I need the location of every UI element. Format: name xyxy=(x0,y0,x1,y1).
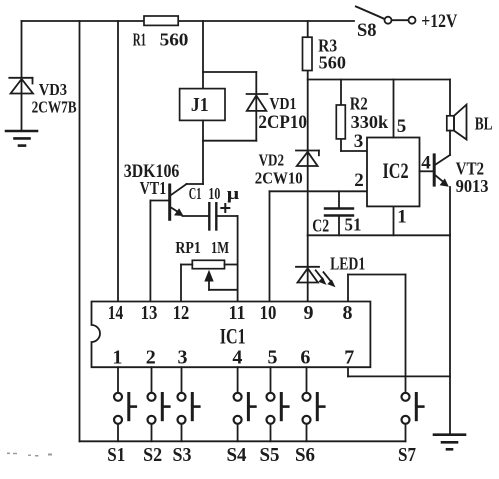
svg-text:IC2: IC2 xyxy=(383,158,409,183)
potentiometer RP1 xyxy=(192,260,224,268)
wire pin10/pin2 horizontal xyxy=(270,190,368,192)
svg-text:IC1: IC1 xyxy=(220,324,246,349)
svg-text:560: 560 xyxy=(319,53,346,73)
svg-text:5: 5 xyxy=(268,347,278,369)
wire RP1 left lead xyxy=(181,264,192,266)
pushbutton S3 xyxy=(178,393,200,442)
svg-text:S7: S7 xyxy=(398,444,416,466)
svg-text:51: 51 xyxy=(345,215,362,235)
svg-text:µ: µ xyxy=(227,184,240,203)
IC IC1 xyxy=(92,302,371,368)
timer IC2 xyxy=(367,138,420,207)
svg-text:S5: S5 xyxy=(260,444,280,466)
wire VT2 emitter to ground xyxy=(449,187,451,435)
svg-text:8: 8 xyxy=(343,302,353,324)
svg-text:2: 2 xyxy=(146,347,156,369)
pushbutton S1 xyxy=(114,393,136,442)
wire pin10 vertical xyxy=(269,191,271,301)
svg-text:VT1: VT1 xyxy=(140,178,167,198)
pushbutton S7 xyxy=(402,393,424,442)
svg-text:S2: S2 xyxy=(143,444,162,466)
wire RP1 right lead xyxy=(225,264,238,266)
switch labels xyxy=(107,444,416,466)
LED LED1 xyxy=(296,235,336,301)
svg-text:3: 3 xyxy=(178,347,188,369)
pushbutton S5 xyxy=(267,393,289,442)
svg-text:VD2: VD2 xyxy=(259,151,284,170)
svg-text:9013: 9013 xyxy=(456,176,489,196)
pushbutton S6 xyxy=(303,393,325,442)
wire pin7 to ground xyxy=(347,367,349,376)
pushbutton S2 xyxy=(148,393,170,442)
svg-text:6: 6 xyxy=(300,347,310,369)
transistor VT1 xyxy=(150,184,203,219)
svg-text:LED1: LED1 xyxy=(330,254,365,274)
wires IC1 bottom pins xyxy=(117,367,119,392)
svg-text:S8: S8 xyxy=(357,20,377,41)
wire IC2 pin1 xyxy=(393,206,395,235)
wire top rail xyxy=(22,20,355,22)
svg-text:4: 4 xyxy=(232,347,242,369)
wire J1 top horizontal xyxy=(203,71,256,73)
wire R3/VD2 vertical xyxy=(307,21,309,235)
zener diode VD3 xyxy=(9,78,33,94)
svg-text:10: 10 xyxy=(208,184,220,203)
wire left long vertical xyxy=(79,21,81,441)
wire C1 to pin11 xyxy=(216,215,237,217)
svg-text:2CP10: 2CP10 xyxy=(258,113,307,133)
transistor VT2 xyxy=(434,155,450,187)
switch S8 xyxy=(356,7,416,24)
wire VT1 emitter to C1 xyxy=(183,215,210,217)
svg-text:10: 10 xyxy=(260,302,277,324)
wire lower rail (LED/C2/pin1/ground) xyxy=(308,234,450,236)
wire pin14 vertical xyxy=(117,21,119,302)
svg-text:R1: R1 xyxy=(133,30,146,50)
pushbutton S4 xyxy=(234,393,256,442)
svg-text:BL: BL xyxy=(475,114,493,134)
diode VD1 xyxy=(247,72,268,141)
wire pin12 vertical xyxy=(180,265,182,302)
wire J1 bottom vertical to VT1 collector xyxy=(202,120,204,184)
svg-text:1: 1 xyxy=(397,207,407,228)
svg-text:2: 2 xyxy=(354,170,364,191)
RP1 wiper arrow xyxy=(204,270,237,290)
ground (VD3) xyxy=(6,131,37,146)
resistor R2 xyxy=(336,105,345,139)
svg-text:S3: S3 xyxy=(173,444,192,466)
wire pin8 routing xyxy=(347,275,349,302)
svg-text:J1: J1 xyxy=(191,94,209,116)
wire pin11 vertical xyxy=(237,216,239,302)
IC1 pin numbers top row xyxy=(108,302,353,324)
wire IC2 pin5 xyxy=(393,80,395,138)
svg-text:7: 7 xyxy=(344,347,354,369)
resistor R1 xyxy=(144,16,178,25)
svg-text:S4: S4 xyxy=(227,444,247,466)
wire pin13 vertical (VT1 base) xyxy=(149,201,151,302)
ground (right) xyxy=(434,435,465,450)
svg-text:S6: S6 xyxy=(295,444,315,466)
IC1 pin numbers bottom row xyxy=(112,347,354,369)
wire speaker to VT2 collector xyxy=(449,131,451,155)
svg-text:VD3: VD3 xyxy=(39,80,67,99)
plus sign C1 xyxy=(221,204,229,212)
svg-text:560: 560 xyxy=(160,30,189,50)
wire bottom rail xyxy=(80,440,406,442)
svg-text:C1: C1 xyxy=(189,184,202,203)
wire IC2 pin4 to VT2 base xyxy=(420,170,434,172)
svg-text:14: 14 xyxy=(108,302,124,324)
svg-text:R2: R2 xyxy=(350,94,368,114)
svg-text:2CW10: 2CW10 xyxy=(255,169,303,188)
wire right vertical above speaker xyxy=(449,80,451,116)
svg-text:11: 11 xyxy=(229,302,246,324)
relay J1 xyxy=(180,89,225,121)
svg-text:+12V: +12V xyxy=(421,11,457,32)
wire J1 drop vertical xyxy=(202,21,204,89)
svg-text:VD1: VD1 xyxy=(270,94,297,113)
svg-text:4: 4 xyxy=(421,153,431,174)
svg-text:C2: C2 xyxy=(312,216,329,236)
capacitor C1 xyxy=(209,203,216,229)
svg-text:13: 13 xyxy=(141,302,158,324)
svg-text:S1: S1 xyxy=(107,444,125,466)
wire R2 to IC2 pin3 xyxy=(341,150,367,152)
svg-text:2CW7B: 2CW7B xyxy=(32,98,77,117)
resistor R2 leads xyxy=(340,80,342,152)
wire J1 bottom horizontal xyxy=(203,140,256,142)
scan specks (decorative, faint) xyxy=(7,453,52,457)
resistor R3 xyxy=(303,37,313,70)
wire mid rail (R3 bottom) xyxy=(308,79,450,81)
wire VD3 branch vertical xyxy=(21,21,23,131)
svg-text:RP1: RP1 xyxy=(175,238,201,257)
svg-text:1: 1 xyxy=(112,347,122,369)
capacitor C2 xyxy=(325,191,353,235)
svg-text:1M: 1M xyxy=(211,238,229,257)
svg-text:330k: 330k xyxy=(351,112,389,132)
svg-text:3: 3 xyxy=(354,131,364,152)
zener diode VD2 xyxy=(296,151,319,167)
svg-text:12: 12 xyxy=(173,302,190,324)
svg-text:9: 9 xyxy=(304,302,314,324)
speaker BL xyxy=(447,105,467,140)
svg-text:5: 5 xyxy=(397,116,407,137)
